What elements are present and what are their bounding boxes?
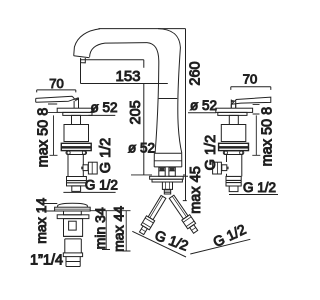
overflow hole [69, 221, 77, 230]
locknut bar 1 [219, 143, 249, 147]
svg-text:260: 260 [187, 61, 203, 85]
svg-text:G 1/2: G 1/2 [210, 221, 248, 250]
neck [229, 115, 238, 124]
inlet elbow [83, 165, 88, 171]
washer plate 2 [152, 179, 182, 182]
drain ref tick [91, 210, 131, 212]
right valve max50 line [252, 115, 260, 155]
spout base [154, 153, 182, 167]
locknut bar 1 [61, 143, 91, 147]
tail [65, 239, 82, 253]
spout column right edge [178, 48, 182, 154]
svg-text:ø 52: ø 52 [190, 98, 217, 113]
stem [74, 98, 78, 109]
cartridge block [64, 125, 89, 142]
escutcheon plate [216, 108, 253, 112]
locknut bar 2 [61, 148, 91, 151]
bottom collar [227, 175, 242, 177]
hose right [168, 194, 200, 234]
tail ring [63, 253, 82, 257]
spout base joint line [154, 160, 181, 162]
tail end [66, 257, 80, 267]
svg-text:205: 205 [128, 100, 144, 124]
svg-text:70: 70 [49, 76, 63, 91]
spout aerator nib [81, 58, 86, 63]
right valve bottom leader [229, 194, 278, 196]
clamp washer [223, 151, 244, 155]
svg-text:max 44: max 44 [110, 206, 126, 252]
spout outer right bend [158, 29, 180, 48]
neck [64, 211, 82, 215]
left valve bottom leader [63, 191, 115, 193]
neck [72, 115, 81, 124]
basin flange [57, 215, 89, 219]
drain min34 line [102, 211, 110, 250]
lever blade left [36, 96, 79, 102]
left valve o52 leader [88, 114, 115, 116]
svg-text:G 1/2: G 1/2 [98, 138, 114, 173]
svg-text:1”1/4: 1”1/4 [30, 253, 63, 269]
cartridge block [221, 125, 246, 142]
drain max14 bracket [42, 204, 57, 212]
spout top extension line to 260 dim [99, 28, 186, 30]
right valve 70 bracket [231, 87, 271, 90]
escutcheon ring [63, 112, 92, 115]
spout tip bottom [74, 56, 90, 58]
body tube [68, 155, 83, 177]
inlet elbow [222, 165, 227, 171]
step [64, 236, 83, 239]
body tube [226, 155, 241, 177]
left valve 70 bracket [37, 90, 76, 93]
svg-text:max 14: max 14 [33, 198, 49, 244]
spout outer left bend [74, 29, 100, 56]
svg-text:max 50 8: max 50 8 [260, 107, 276, 167]
escutcheon ring [218, 112, 247, 115]
washer plate 1 [150, 176, 184, 179]
hose G1/2 leader left [132, 231, 186, 257]
right valve 8-dim ticks [253, 104, 260, 114]
svg-text:G 1/2: G 1/2 [85, 178, 118, 193]
hose left [137, 194, 167, 235]
drain max44 line [123, 211, 131, 251]
svg-text:max 50 8: max 50 8 [36, 108, 52, 168]
svg-text:ø 52: ø 52 [91, 100, 118, 115]
left valve 8-dim ticks [48, 104, 57, 112]
stem [231, 100, 235, 109]
stud right [169, 167, 175, 176]
cap dome [58, 203, 88, 207]
svg-text:G 1/2: G 1/2 [243, 180, 276, 195]
svg-text:70: 70 [243, 71, 257, 86]
svg-text:ø 52: ø 52 [128, 141, 155, 156]
cap rim [55, 207, 91, 211]
right valve o52 leader [188, 112, 216, 114]
spout inner left curve [90, 43, 147, 57]
dim 205 line [143, 60, 145, 175]
mounting nut [162, 182, 172, 189]
spout inner right bend [147, 43, 159, 64]
svg-text:G 1/2: G 1/2 [203, 135, 219, 170]
stud left [159, 167, 165, 176]
svg-text:max 45: max 45 [188, 166, 204, 214]
lever blade right [231, 97, 270, 108]
locknut bar 2 [219, 148, 249, 151]
svg-text:min 34: min 34 [92, 207, 108, 249]
hose G1/2 leader right [190, 239, 250, 254]
clamp washer [66, 151, 87, 155]
dim 153 bracket [81, 59, 168, 84]
left valve max50 line [50, 115, 58, 155]
spout joint line [159, 98, 178, 100]
bottom collar [67, 177, 87, 186]
body [64, 219, 83, 237]
escutcheon plate [57, 108, 94, 112]
spout column left edge [155, 64, 159, 153]
threaded rod [164, 189, 170, 194]
dim 260/max45 line [183, 29, 188, 201]
deck line [131, 174, 185, 176]
svg-text:153: 153 [115, 68, 140, 85]
